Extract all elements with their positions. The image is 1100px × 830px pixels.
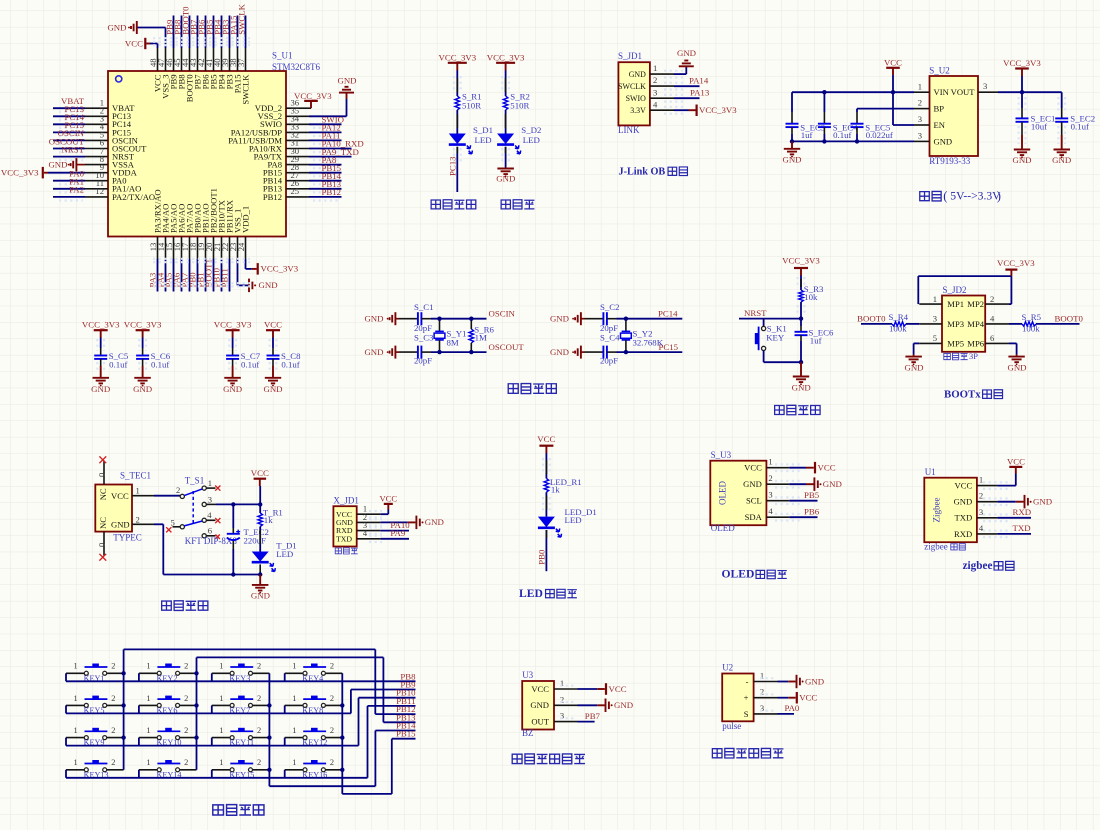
U1 pin 36 VDD_2 <box>286 107 309 109</box>
svg-text:MP2: MP2 <box>967 299 984 309</box>
svg-text:PC13: PC13 <box>447 156 457 176</box>
svg-text:GND: GND <box>823 479 842 489</box>
wire U2 S to PA0 <box>778 713 795 715</box>
svg-text:1: 1 <box>219 662 223 671</box>
U1 pin 40 PB4 (top) <box>221 48 223 71</box>
ground at X_JD1 <box>415 516 417 530</box>
svg-text:GND: GND <box>614 700 633 710</box>
junction LED bottom <box>258 572 262 576</box>
capacitor S_EC6 1uf <box>800 319 802 326</box>
column 2 vertical <box>196 657 198 769</box>
U1 pin 31 PA10/RX <box>286 148 309 150</box>
U1 marker circle <box>116 76 122 82</box>
svg-text:GND: GND <box>107 22 126 32</box>
svg-text:EN: EN <box>934 120 946 130</box>
KEY10 pin1 drop <box>138 738 140 746</box>
svg-text:U2: U2 <box>722 663 733 673</box>
resistor S_R2 510R <box>503 96 508 110</box>
wire OSCIN <box>431 318 487 320</box>
svg-text:1: 1 <box>292 662 296 671</box>
wire VDD_1 to VCC_3V3 <box>245 259 247 269</box>
wire LED_D1 to PB0 <box>545 530 547 571</box>
svg-text:GND: GND <box>496 174 515 184</box>
svg-text:SCL: SCL <box>746 496 762 506</box>
svg-text:S_TEC1: S_TEC1 <box>120 470 151 480</box>
svg-text:1: 1 <box>292 694 296 703</box>
U1 pin 46 PB9 (top) <box>173 48 175 71</box>
capacitor S_C5 0.1uf <box>100 338 102 349</box>
svg-text:PA9: PA9 <box>390 528 405 538</box>
svg-text:VCC_3V3: VCC_3V3 <box>124 319 162 329</box>
svg-text:GND: GND <box>48 159 67 169</box>
svg-text:GND: GND <box>1033 497 1052 507</box>
U1 pin 42 PB6 (top) <box>205 48 207 71</box>
svg-text:3P: 3P <box>969 352 978 361</box>
junction VOUT <box>1020 90 1024 94</box>
ground at zigbee <box>1024 495 1026 509</box>
title crystal circuit <box>508 384 518 394</box>
svg-text:VCC_3V3: VCC_3V3 <box>438 52 476 62</box>
svg-text:3.3V: 3.3V <box>630 106 646 115</box>
wire X_JD1 VCC <box>381 513 389 515</box>
svg-text:PB15: PB15 <box>396 729 416 739</box>
svg-text:VCC: VCC <box>537 434 555 444</box>
IC U1 STM32C8T6 body <box>108 71 286 237</box>
U1 pin 43 PB7 (top) <box>197 48 199 71</box>
svg-text:2: 2 <box>184 726 188 735</box>
U1 pin 25 PB12 <box>286 196 309 198</box>
OLED pin 4 SDA <box>766 516 789 518</box>
wire U3 VCC <box>578 688 598 690</box>
svg-text:2: 2 <box>257 694 261 703</box>
U1 pin 5 OSCIN <box>85 139 108 141</box>
key KEY8 <box>285 704 303 706</box>
U2 pin 3 S <box>754 713 778 715</box>
svg-text:GND: GND <box>934 136 953 146</box>
TEC1 pin GND <box>132 523 154 525</box>
LED T_D1 <box>252 552 269 562</box>
svg-text:8M: 8M <box>447 337 459 347</box>
key KEY13 <box>66 769 84 771</box>
svg-text:2: 2 <box>184 662 188 671</box>
U1 pin 11 PA1/AO <box>85 188 108 190</box>
svg-text:OSCIN: OSCIN <box>489 308 516 318</box>
svg-text:1: 1 <box>979 475 983 485</box>
svg-text:20pF: 20pF <box>600 323 618 333</box>
wire zigbee TXD to RXD <box>997 517 1031 519</box>
svg-text:S_C4: S_C4 <box>600 333 620 343</box>
svg-text:SWCLK: SWCLK <box>236 3 246 34</box>
junction throw3 wire <box>231 502 235 506</box>
T_S1 pin6 <box>202 534 206 538</box>
zigbee pin 4 RXD <box>977 533 998 535</box>
svg-text:GND: GND <box>111 519 130 529</box>
U1 pin 24 VDD_1 (bottom) <box>245 237 247 260</box>
regulator U2 RT9193-33 body <box>930 76 979 156</box>
svg-text:2: 2 <box>330 726 334 735</box>
svg-text:NRST: NRST <box>744 308 767 318</box>
U1 pin 14 PA4/AO (bottom) <box>165 237 167 260</box>
svg-text:VCC_3V3: VCC_3V3 <box>82 319 120 329</box>
svg-text:1: 1 <box>146 662 150 671</box>
ground at S_C3 <box>394 346 396 359</box>
ground below S_C7 <box>224 377 241 379</box>
svg-text:OLED: OLED <box>722 568 755 581</box>
wire VCC to switch <box>154 495 180 497</box>
U1 pin 29 PA8 <box>286 164 309 166</box>
key KEY15 <box>212 769 230 771</box>
svg-text:VDD_1: VDD_1 <box>241 206 251 233</box>
U1 pin 35 VSS_2 <box>286 115 309 117</box>
wire S_D2 to ground <box>505 147 507 169</box>
wire S_R2 to S_D2 <box>505 110 507 134</box>
junction bottom <box>799 360 803 364</box>
svg-text:0.1uf: 0.1uf <box>241 360 259 370</box>
U1 pin 3 PC14 <box>85 123 108 125</box>
svg-text:T_S1: T_S1 <box>185 476 205 486</box>
TEC1 pin VCC <box>132 495 154 497</box>
svg-text:U3: U3 <box>522 670 533 680</box>
svg-text:1k: 1k <box>551 484 560 494</box>
svg-text:GND: GND <box>1052 155 1071 165</box>
svg-text:25: 25 <box>291 186 300 196</box>
KEY3 pin1 drop <box>211 673 213 681</box>
OLED pin 1 VCC <box>766 467 789 469</box>
key KEY2 <box>139 672 157 674</box>
svg-text:5: 5 <box>933 333 937 343</box>
svg-text:RXD: RXD <box>1013 507 1032 517</box>
svg-text:GND: GND <box>1007 363 1026 373</box>
key KEY9 <box>66 737 84 739</box>
resistor S_R5 100k <box>1022 322 1036 327</box>
svg-text:LED: LED <box>276 549 293 559</box>
wire zigbee VCC <box>997 485 1015 487</box>
svg-text:2: 2 <box>111 662 115 671</box>
svg-text:NC: NC <box>98 517 108 529</box>
LED S_D1 <box>449 134 466 145</box>
LED S_D2 <box>497 134 514 145</box>
svg-text:PB11: PB11 <box>220 268 230 287</box>
svg-text:1: 1 <box>768 457 772 467</box>
svg-text:LED: LED <box>523 135 540 145</box>
svg-text:1: 1 <box>918 81 922 91</box>
svg-text:PA2/TX/AO: PA2/TX/AO <box>112 192 155 202</box>
column 2 to PB13 <box>197 656 384 658</box>
power port VCC_3V3 at JD1 <box>695 105 697 117</box>
svg-text:KFT DIP-8X8: KFT DIP-8X8 <box>185 536 238 546</box>
title reset circuit <box>775 406 784 415</box>
ground rail of input caps <box>792 140 914 142</box>
svg-text:BP: BP <box>934 104 945 114</box>
svg-text:VCC: VCC <box>264 319 282 329</box>
svg-text:PA13: PA13 <box>690 88 710 98</box>
KEY16 pin1 drop <box>284 770 286 778</box>
U1 pin 8 VSSA <box>85 164 108 166</box>
ground at S_C4 <box>580 346 582 359</box>
wire VOUT to VCC_3V3 <box>998 91 1062 93</box>
ground below S_EC1 <box>1014 149 1030 151</box>
title infrared module <box>512 754 522 763</box>
OLED pin 3 SCL <box>766 500 789 502</box>
power port VCC at OLED <box>814 462 816 474</box>
U1 pin 9 VDDA <box>85 172 108 174</box>
svg-text:32.768K: 32.768K <box>633 337 664 347</box>
svg-text:GND: GND <box>954 497 973 507</box>
capacitor T_EC2 220uF <box>232 504 234 528</box>
U1 pin 27 PB14 <box>286 180 309 182</box>
svg-text:3: 3 <box>979 507 983 517</box>
title power LED <box>501 200 510 209</box>
svg-text:0.1uf: 0.1uf <box>151 360 169 370</box>
wire to S_R3 <box>800 276 802 291</box>
svg-text:VCC: VCC <box>818 463 836 473</box>
U1 pin 10 PA0 <box>85 180 108 182</box>
wire PC15 <box>617 351 683 353</box>
svg-text:4: 4 <box>768 506 773 516</box>
svg-text:pulse: pulse <box>722 721 741 731</box>
svg-text:GND: GND <box>263 384 282 394</box>
ground at U1 VSSA <box>75 158 77 171</box>
svg-text:3: 3 <box>983 81 987 91</box>
svg-text:10uf: 10uf <box>1031 122 1047 132</box>
svg-text:Zigbee: Zigbee <box>932 498 942 523</box>
svg-text:2: 2 <box>111 694 115 703</box>
label download port <box>335 548 341 554</box>
U1 pin 38 PA15 (top) <box>237 48 239 71</box>
svg-text:VCC: VCC <box>1007 456 1025 466</box>
svg-text:0: 0 <box>96 543 106 547</box>
row 1 bus to PB8 <box>66 680 416 682</box>
svg-text:2: 2 <box>330 694 334 703</box>
svg-text:0.1uf: 0.1uf <box>281 360 299 370</box>
svg-text:GND: GND <box>530 700 549 710</box>
JD2 pins 3/4 <box>919 323 942 325</box>
key KEY12 <box>285 737 303 739</box>
KEY13 pin1 drop <box>65 770 67 778</box>
U1 pin 22 PB11/RX (bottom) <box>229 237 231 260</box>
resistor LED_R1 1k <box>544 479 549 493</box>
svg-text:GND: GND <box>251 590 270 600</box>
svg-text:20pF: 20pF <box>414 356 432 366</box>
power port VCC_3V3 at JD2 <box>1010 270 1012 276</box>
svg-text:10k: 10k <box>804 292 818 302</box>
svg-text:S_C2: S_C2 <box>600 302 620 312</box>
junction EC4 top <box>822 90 826 94</box>
X_JD1 pin 2 GND <box>357 521 381 523</box>
LED LED_D1 <box>538 517 555 528</box>
svg-text:5: 5 <box>171 517 175 527</box>
U1 pin 4 PC15 <box>85 131 108 133</box>
power port VCC at U3 <box>605 683 607 695</box>
U1 pin 26 PB13 <box>286 188 309 190</box>
resistor T_R1 1k <box>258 513 263 527</box>
svg-text:MP3: MP3 <box>947 319 964 329</box>
svg-text:0.1uf: 0.1uf <box>1071 122 1089 132</box>
U2 pin BP <box>914 108 930 110</box>
resistor S_R6 1M <box>470 319 472 329</box>
U1 pin 15 PA5/AO (bottom) <box>173 237 175 260</box>
ground at S_C1 <box>394 312 396 325</box>
svg-text:U1: U1 <box>925 467 936 477</box>
power port VCC at U2 <box>796 692 798 704</box>
power port VCC_3V3 bottom <box>257 263 259 275</box>
pin snap marks bottom <box>153 258 250 260</box>
svg-text:(: ( <box>943 189 947 203</box>
module U2 pulse body <box>722 674 753 722</box>
key KEY14 <box>139 769 157 771</box>
X_JD1 pin 4 TXD <box>357 538 381 540</box>
svg-text:GND: GND <box>550 314 569 324</box>
svg-text:VCC: VCC <box>799 693 817 703</box>
svg-text:0: 0 <box>96 473 106 477</box>
svg-text:PA2: PA2 <box>69 185 84 195</box>
U1 pin 1 VBAT <box>85 107 108 109</box>
U2 pin VOUT <box>978 91 998 93</box>
ground below S_C5 <box>93 377 110 379</box>
svg-text:GND: GND <box>677 48 696 58</box>
row 2 bus to PB9 <box>66 712 351 714</box>
svg-text:OUT: OUT <box>531 717 549 727</box>
svg-text:1k: 1k <box>264 515 273 525</box>
label jumper cap 3P <box>944 353 951 359</box>
T_S1 pin4 throw <box>202 518 206 522</box>
U1 pin 6 OSCOUT <box>85 148 108 150</box>
svg-text:NRST: NRST <box>62 144 85 154</box>
ground below pin5 <box>905 356 922 358</box>
svg-text:OSCOUT: OSCOUT <box>489 342 525 352</box>
svg-text:PC14: PC14 <box>658 308 678 318</box>
key KEY1 <box>66 672 84 674</box>
svg-text:MP1: MP1 <box>947 299 964 309</box>
svg-text:SWIO: SWIO <box>626 94 646 103</box>
JD2 pins 1/2 <box>919 303 942 305</box>
module U1 Zigbee body <box>924 478 977 543</box>
ground at U3 <box>605 699 607 713</box>
svg-text:1: 1 <box>74 758 78 767</box>
svg-text:S_R4: S_R4 <box>889 312 909 322</box>
power port VCC_3V3 at U1 VDD_2 <box>304 100 318 102</box>
title power circuit <box>162 601 172 610</box>
svg-text:1: 1 <box>146 758 150 767</box>
column 4 vertical <box>341 673 343 794</box>
U2 pin EN <box>914 124 930 126</box>
svg-text:RT9193-33: RT9193-33 <box>929 156 970 166</box>
svg-text:J-Link OB: J-Link OB <box>619 167 666 178</box>
svg-text:GND: GND <box>782 155 801 165</box>
svg-text:1uf: 1uf <box>810 336 822 346</box>
connector X_JD1 body <box>333 506 356 546</box>
svg-text:PB7: PB7 <box>585 711 601 721</box>
wire VCC to LED_R1 <box>545 453 547 479</box>
svg-text:510R: 510R <box>462 101 481 111</box>
svg-text:LINK: LINK <box>618 125 640 135</box>
svg-text:PB5: PB5 <box>804 490 820 500</box>
U2 pin GND <box>914 140 930 142</box>
svg-text:4: 4 <box>653 99 658 109</box>
U1 pin 2 PC13 <box>85 115 108 117</box>
svg-text:VCC: VCC <box>744 463 762 473</box>
resistor S_R1 510R <box>455 96 460 110</box>
svg-text:SWCLK: SWCLK <box>241 74 251 105</box>
ground top-left <box>136 21 138 34</box>
ground below reset <box>800 362 802 376</box>
U1 pin 33 PA12/USB/DP <box>286 131 309 133</box>
svg-text:3: 3 <box>933 314 937 324</box>
resistor S_R3 10k <box>799 290 804 302</box>
capacitor S_C6 0.1uf <box>142 338 144 349</box>
capacitor S_C3 20pF <box>395 351 399 353</box>
key KEY16 <box>285 769 303 771</box>
svg-text:VCC: VCC <box>379 493 397 503</box>
svg-text:MP4: MP4 <box>967 319 984 329</box>
svg-text:GND: GND <box>364 347 383 357</box>
ground below S_EC2 <box>1054 149 1071 151</box>
svg-text:GND: GND <box>629 70 646 79</box>
svg-text:zigbee: zigbee <box>963 560 993 572</box>
wire OSCOUT <box>431 351 487 353</box>
U3 pin 1 VCC <box>554 688 578 690</box>
title matrix keyboard <box>213 805 224 815</box>
JD1 pin 1 GND <box>650 73 674 75</box>
capacitor S_C4 20pF <box>581 351 585 353</box>
ground below S_C8 <box>265 377 281 379</box>
svg-text:1: 1 <box>292 758 296 767</box>
U1 pin 23 VSS_1 (bottom) <box>237 237 239 260</box>
svg-text:LED: LED <box>565 515 582 525</box>
svg-text:20pF: 20pF <box>600 356 618 366</box>
crystal S_Y1 8M <box>439 319 441 332</box>
U1 pin 41 PB5 (top) <box>213 48 215 71</box>
wire T_D1 to rail <box>259 564 261 574</box>
svg-text:1uf: 1uf <box>801 130 813 140</box>
svg-text:VCC_3V3: VCC_3V3 <box>487 52 525 62</box>
svg-text:1: 1 <box>653 63 657 73</box>
svg-text:BOOT0: BOOT0 <box>1055 313 1084 323</box>
junction VIN <box>891 90 895 94</box>
svg-text:PA14: PA14 <box>689 76 709 86</box>
row 4 bus to PB11 <box>66 777 368 779</box>
U1 pin 21 PB10/TX (bottom) <box>221 237 223 260</box>
wire X_JD1 TXD to PA9 <box>381 538 409 540</box>
zigbee pin 3 TXD <box>977 517 998 519</box>
svg-text:VCC_3V3: VCC_3V3 <box>214 319 252 329</box>
svg-text:5V-->3.3V: 5V-->3.3V <box>950 189 1001 202</box>
column 3 vertical <box>268 673 270 786</box>
svg-text:VCC_3V3: VCC_3V3 <box>699 105 737 115</box>
wire JD1 GND <box>674 73 686 75</box>
pin snap marks top <box>153 37 250 39</box>
wire OLED SDA to PB6 <box>789 516 817 518</box>
KEY1 pin1 drop <box>65 673 67 681</box>
svg-text:VCC_3V3: VCC_3V3 <box>782 256 820 266</box>
svg-text:37: 37 <box>236 58 246 67</box>
svg-text:VCC: VCC <box>884 57 902 67</box>
U2 pin 2 + <box>754 697 778 699</box>
svg-text:2: 2 <box>257 662 261 671</box>
svg-text:MP6: MP6 <box>967 339 984 349</box>
KEY15 pin1 drop <box>211 770 213 778</box>
U1 pin 13 PA3/RX/AO (bottom) <box>157 237 159 260</box>
U1 pin 34 SWIO <box>286 123 309 125</box>
svg-text:2: 2 <box>768 473 772 483</box>
svg-text:2: 2 <box>111 758 115 767</box>
power port VCC_3V3 at U1 VDDA <box>42 167 44 179</box>
svg-text:0.022uf: 0.022uf <box>866 130 893 140</box>
KEY2 pin1 drop <box>138 673 140 681</box>
svg-text:LED: LED <box>475 135 492 145</box>
ground at OLED <box>813 477 815 491</box>
wire pin5 to ground <box>914 342 920 344</box>
